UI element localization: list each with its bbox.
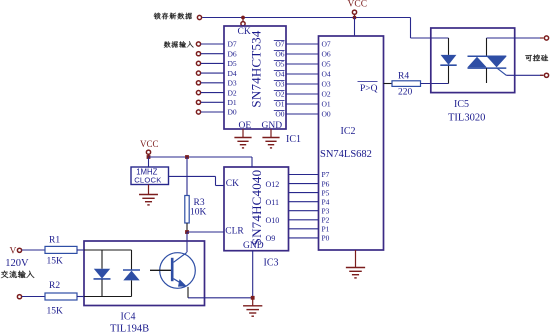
junction at VCC2 (147, 155, 151, 159)
wire bus IC1 outputs to IC2 (286, 43, 319, 45)
svg-text:IC5: IC5 (454, 99, 469, 110)
wire VCC rail to IC3 (149, 156, 253, 158)
label AC input (1, 271, 34, 278)
diode LED2 (up) (131, 250, 133, 270)
svg-text:VCC: VCC (348, 0, 368, 10)
svg-text:IC4: IC4 (121, 312, 136, 323)
svg-text:R2: R2 (49, 281, 60, 291)
wire P>Q stub (384, 83, 393, 85)
svg-text:D5: D5 (228, 59, 237, 68)
svg-text:R4: R4 (398, 72, 409, 82)
svg-text:O0: O0 (275, 110, 284, 119)
svg-text:IC1: IC1 (286, 134, 301, 145)
node R2 terminal (17, 295, 21, 299)
svg-text:D4: D4 (228, 69, 237, 78)
svg-text:IC3: IC3 (264, 258, 279, 269)
wire R3 to junction (186, 223, 188, 230)
svg-text:O10: O10 (266, 216, 280, 225)
svg-text:O0: O0 (322, 110, 331, 119)
node data input terminals D7-D0 (196, 42, 200, 46)
svg-text:OE: OE (239, 121, 252, 131)
svg-text:D6: D6 (228, 49, 237, 58)
junction at R3/CLR/collector (185, 230, 189, 234)
wire triac gate to terminal (506, 74, 543, 76)
svg-text:CK: CK (226, 179, 239, 189)
svg-text:R3: R3 (194, 198, 205, 208)
node IC1 CK pin bubble (242, 19, 244, 22)
svg-text:O2: O2 (275, 90, 284, 99)
resistor R4 (392, 81, 421, 87)
svg-text:O9: O9 (266, 234, 276, 243)
ground at IC1 GND (270, 129, 272, 138)
wire bus IC3 outputs to IC2 P inputs (289, 174, 319, 176)
node SCR terminal top (544, 36, 548, 40)
svg-text:GND: GND (243, 241, 264, 251)
svg-text:O1: O1 (322, 100, 331, 109)
svg-text:TIL194B: TIL194B (110, 324, 149, 333)
wire R4 to opto LED (421, 83, 449, 85)
transistor Q1 (photo NPN) (160, 253, 196, 289)
svg-text:O5: O5 (275, 60, 284, 69)
svg-text:O4: O4 (322, 70, 331, 79)
ground at IC1 OE (242, 129, 244, 138)
wire clock out to IC3 CK (169, 175, 216, 177)
svg-text:GND: GND (262, 121, 283, 131)
wire emitter to ground rail (187, 287, 189, 298)
resistor R1 (22, 249, 45, 251)
op IC2 SN74LS682 box (319, 36, 384, 250)
opto IC4 TIL194B box (84, 241, 205, 306)
opto IC5 TIL3020 box (431, 28, 515, 93)
label SCR (ke kong gui) (525, 54, 548, 61)
svg-text:10K: 10K (190, 208, 207, 218)
svg-text:O3: O3 (275, 80, 284, 89)
svg-text:D7: D7 (228, 40, 237, 49)
wire top rail (latch/VCC to opto) (202, 17, 410, 19)
junction at IC1 CK (241, 16, 245, 20)
svg-text:O7: O7 (322, 40, 331, 49)
svg-text:SN74LS682: SN74LS682 (320, 149, 372, 160)
resistor R2 (22, 296, 45, 298)
junction at ground rail (251, 296, 255, 300)
wire VCC to IC2 top (354, 18, 356, 37)
svg-text:P2: P2 (322, 216, 330, 225)
ground at clock (148, 185, 150, 195)
svg-text:15K: 15K (47, 256, 64, 266)
junction at VCC/IC2 (353, 16, 357, 20)
op IC1 SN74HCT534 box (224, 26, 286, 129)
svg-text:15K: 15K (47, 307, 64, 317)
svg-text:SN74HC4040: SN74HC4040 (249, 170, 264, 246)
svg-text:O4: O4 (275, 70, 284, 79)
ground (main) (252, 298, 254, 306)
svg-text:V: V (10, 246, 17, 256)
svg-text:P3: P3 (322, 206, 330, 215)
svg-text:O7: O7 (275, 40, 284, 49)
svg-text:VCC: VCC (140, 139, 159, 149)
svg-text:R1: R1 (49, 235, 60, 245)
svg-text:P7: P7 (322, 170, 330, 179)
svg-text:P4: P4 (322, 197, 330, 206)
svg-text:220: 220 (398, 87, 413, 97)
label data input (164, 41, 194, 47)
svg-text:O12: O12 (266, 180, 280, 189)
triac (IC5 output) (486, 38, 488, 56)
op IC3 SN74HC4040 box (224, 167, 289, 251)
oscillator 1MHZ CLOCK box (131, 167, 169, 185)
svg-text:P1: P1 (322, 225, 330, 234)
svg-text:TIL3020: TIL3020 (448, 113, 485, 124)
svg-text:SN74HCT534: SN74HCT534 (249, 30, 264, 107)
svg-text:O3: O3 (322, 80, 331, 89)
svg-text:IC2: IC2 (341, 126, 356, 137)
wire R2 to opto LEDs (77, 296, 84, 298)
svg-text:D1: D1 (228, 98, 237, 107)
svg-text:O6: O6 (275, 50, 284, 59)
svg-text:D3: D3 (228, 79, 237, 88)
svg-text:O2: O2 (322, 90, 331, 99)
svg-text:D2: D2 (228, 88, 237, 97)
svg-text:O1: O1 (275, 100, 284, 109)
label latch new data (154, 13, 192, 20)
svg-text:P>Q: P>Q (360, 84, 378, 94)
diode LED3 (IC5 input) (448, 38, 450, 55)
svg-text:O6: O6 (322, 50, 331, 59)
svg-text:D0: D0 (228, 108, 237, 117)
wire triac MT2 to terminal (487, 37, 544, 39)
wire R1 to opto LEDs (77, 249, 84, 251)
svg-text:P5: P5 (322, 188, 330, 197)
svg-text:O11: O11 (266, 198, 279, 207)
wire VCC to R3 (186, 157, 188, 196)
wire IC3 GND stem (252, 251, 254, 298)
junction at R3 top (185, 155, 189, 159)
wire collector riser (186, 232, 188, 252)
svg-text:P6: P6 (322, 179, 330, 188)
svg-text:CLOCK: CLOCK (134, 175, 161, 184)
wire to IC3 CLR (187, 231, 224, 233)
diode LED1 (down) (101, 250, 103, 269)
svg-text:CLR: CLR (225, 227, 244, 237)
resistor R3 (185, 196, 189, 224)
svg-text:O5: O5 (322, 60, 331, 69)
svg-text:120V: 120V (5, 258, 29, 269)
node latch-data terminal (197, 15, 201, 19)
node SCR terminal bottom (544, 73, 548, 77)
ground at IC2 (355, 250, 357, 268)
svg-text:P0: P0 (322, 234, 330, 243)
